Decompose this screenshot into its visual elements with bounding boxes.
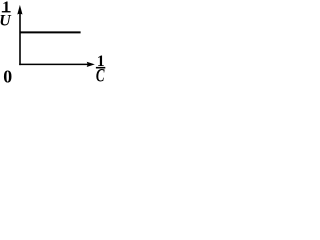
x-axis shaft (19, 63, 88, 65)
y-axis arrowhead (17, 5, 22, 15)
data line (horizontal) (20, 31, 81, 33)
y-axis shaft (19, 13, 21, 66)
svg-text:C: C (96, 66, 105, 83)
x-axis label fraction bar (96, 67, 105, 69)
y-axis label fraction bar (2, 11, 11, 12)
svg-text:U: U (0, 13, 12, 30)
svg-text:0: 0 (3, 66, 12, 83)
x-axis arrowhead (87, 62, 95, 67)
